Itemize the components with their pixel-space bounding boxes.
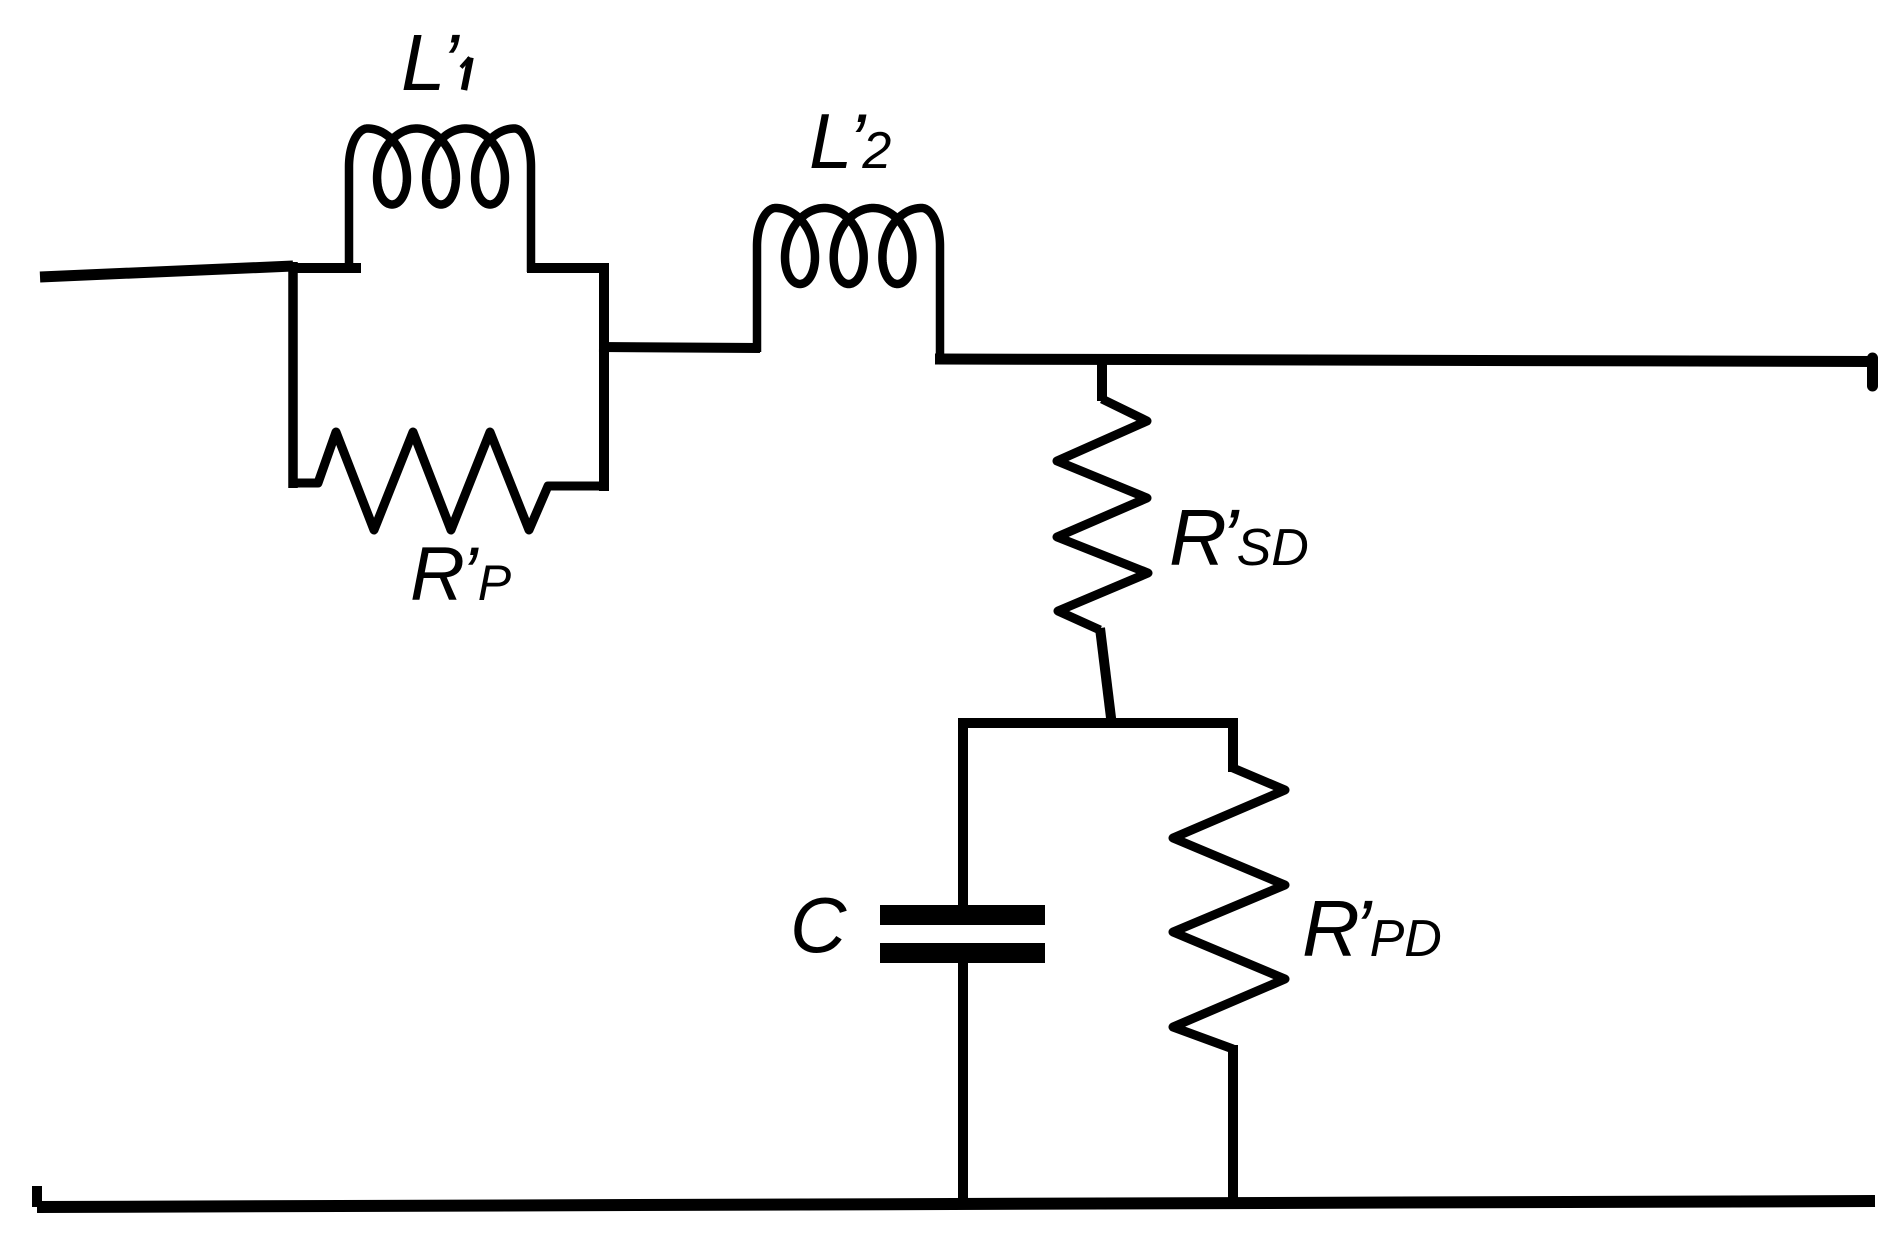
inductor L1 <box>349 129 531 273</box>
wire RSD top stub <box>1097 358 1107 401</box>
node B: right node of L1/RP parallel block <box>599 263 609 491</box>
wire bottom rail left tick <box>32 1186 42 1207</box>
wire RPD top stub <box>1228 718 1238 772</box>
svg-text:C: C <box>790 881 847 969</box>
wire top branch right <box>527 263 608 273</box>
wire capacitor bottom lead <box>958 962 968 1209</box>
resistor RP <box>291 432 606 530</box>
capacitor C plates <box>880 905 1045 963</box>
wire top rail end tick <box>1867 358 1878 386</box>
node A: left node of L1/RP parallel block <box>288 262 298 488</box>
resistor RSD <box>1057 399 1148 630</box>
wire bottom rail <box>37 1201 1875 1207</box>
wire input left <box>40 266 293 277</box>
wire RSD to C/RPD block <box>1100 628 1112 726</box>
wire mid to L2 <box>599 347 760 348</box>
wire capacitor top lead <box>958 718 968 906</box>
inductor L2 <box>757 208 940 364</box>
wire RPD bottom stub <box>1228 1045 1238 1209</box>
wire top of C/RPD parallel block <box>963 718 1234 728</box>
svg-text:L’: L’ <box>401 18 460 107</box>
resistor RPD <box>1173 768 1285 1049</box>
wire top branch left <box>289 263 361 273</box>
wire top rail right <box>935 359 1873 362</box>
